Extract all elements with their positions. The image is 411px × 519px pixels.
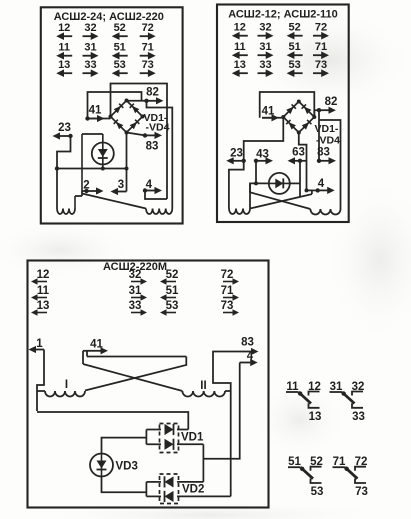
terminal 23 label box2 <box>230 148 243 160</box>
terminal 71 arrow box3 <box>221 285 239 301</box>
terminal 13 arrow <box>56 59 72 77</box>
wire bridge loop rect <box>111 84 168 200</box>
wire 4 to bridge <box>305 188 318 192</box>
wire coil I to VD1 bus <box>37 412 188 430</box>
terminal 4 arrow <box>143 187 162 194</box>
svg-text:12: 12 <box>37 269 50 281</box>
terminal 51 arrow <box>112 42 128 60</box>
svg-text:63: 63 <box>292 147 305 159</box>
svg-text:52: 52 <box>288 22 300 34</box>
terminal 32 arrow <box>83 22 99 40</box>
svg-text:53: 53 <box>311 486 324 498</box>
wire coil II right stub <box>225 390 231 392</box>
terminal 32 arrow <box>258 22 274 40</box>
terminal 83 arrow box3 <box>241 348 259 355</box>
svg-text:-VD4: -VD4 <box>146 122 170 134</box>
terminal 1 arrow <box>29 346 45 353</box>
coil II winding <box>182 391 225 397</box>
wire 43 down <box>254 161 258 186</box>
wire bottom vertex path box2 <box>299 133 307 191</box>
terminal 33 arrow <box>258 59 274 77</box>
svg-text:13: 13 <box>37 300 50 312</box>
diode pair VD1 box <box>160 424 179 453</box>
wire 82-83 vertical <box>318 110 320 161</box>
svg-text:51: 51 <box>114 42 126 54</box>
svg-text:83: 83 <box>317 147 330 159</box>
diode VD1b <box>165 439 174 450</box>
terminal 52 arrow <box>112 22 128 40</box>
label -VD4 <box>146 122 170 134</box>
svg-text:33: 33 <box>84 59 96 71</box>
terminal 72 arrow <box>313 22 329 40</box>
svg-text:51: 51 <box>288 41 300 53</box>
svg-text:32: 32 <box>129 269 142 281</box>
wire 41 to left vertex <box>262 117 283 119</box>
wire crossbar <box>87 356 186 358</box>
terminal 41 label box2 <box>262 106 275 118</box>
terminal 41 label <box>89 105 102 117</box>
svg-text:12: 12 <box>234 22 246 34</box>
svg-text:1: 1 <box>36 338 43 350</box>
terminal 2 arrow <box>84 187 103 194</box>
svg-text:11: 11 <box>234 41 246 53</box>
terminal 41 label box3 <box>90 339 103 351</box>
terminal 33 arrow <box>83 59 99 77</box>
terminal 53 arrow <box>112 59 128 77</box>
title АСШ2-24; АСШ2-220 <box>54 11 164 23</box>
wire common horizontal <box>57 168 127 170</box>
svg-text:83: 83 <box>146 141 159 153</box>
diode VD2a <box>165 476 174 487</box>
contact group 31-32-33 <box>330 381 365 423</box>
terminal 41 arrow <box>85 115 104 122</box>
wire 83 run <box>213 352 241 497</box>
wire bottom vertex to 83 <box>127 133 146 136</box>
terminal 52 arrow box3 <box>160 269 178 285</box>
svg-text:23: 23 <box>58 122 71 134</box>
indicator lamp VD5 circle <box>92 143 114 165</box>
wire VD2 right stubs <box>177 444 231 496</box>
contact group 51-52-53 <box>288 456 323 498</box>
wire diagonal A <box>83 364 182 391</box>
svg-text:I: I <box>65 379 68 391</box>
svg-text:71: 71 <box>142 42 154 54</box>
label VD1- <box>144 112 168 124</box>
terminal 71 arrow <box>140 42 156 60</box>
terminal 33 arrow box3 <box>129 300 147 316</box>
svg-text:53: 53 <box>166 300 179 312</box>
terminal 43 arrow box2 <box>254 157 273 164</box>
terminal 1 label <box>36 338 43 350</box>
terminal 23 label <box>58 122 71 134</box>
svg-text:31: 31 <box>84 42 96 54</box>
coil left winding box2 <box>229 209 250 215</box>
terminal 11 arrow <box>232 41 248 59</box>
svg-text:3: 3 <box>118 179 124 191</box>
svg-text:33: 33 <box>259 59 271 71</box>
wire 2 to coil <box>82 190 87 192</box>
relay block АСШ2-24/АСШ2-220 border <box>41 7 183 223</box>
wire 82 to right coil box2 <box>319 120 341 209</box>
wire top vertex to 82 <box>127 100 147 102</box>
svg-text:53: 53 <box>288 59 300 71</box>
svg-text:13: 13 <box>234 59 246 71</box>
diode VD1a <box>165 424 174 435</box>
terminal 41 arrow box2 <box>262 114 279 121</box>
svg-text:31: 31 <box>259 41 271 53</box>
coil I winding <box>45 391 85 397</box>
terminal 11 arrow <box>56 42 72 60</box>
svg-text:12: 12 <box>58 22 70 34</box>
svg-text:41: 41 <box>89 105 102 117</box>
relay block АСШ2-220М border <box>28 261 269 508</box>
terminal 53 arrow <box>287 59 303 77</box>
wire coil I left stub <box>37 390 45 392</box>
terminal 83 label <box>146 141 159 153</box>
terminal 31 arrow box3 <box>129 285 147 301</box>
svg-text:VD3: VD3 <box>116 461 138 473</box>
terminal 4 label <box>146 179 153 191</box>
terminal 83 label box3 <box>241 337 254 349</box>
terminal 51 arrow box3 <box>160 285 179 301</box>
wire circle-loop vertical <box>81 134 83 196</box>
svg-text:83: 83 <box>241 337 254 349</box>
svg-text:71: 71 <box>221 285 234 297</box>
wire VD1 right stubs <box>177 430 203 445</box>
terminal 4 label box2 <box>318 178 325 190</box>
svg-text:32: 32 <box>259 22 271 34</box>
svg-text:82: 82 <box>146 87 159 99</box>
svg-text:71: 71 <box>315 41 327 53</box>
svg-text:31: 31 <box>129 285 142 297</box>
wire diagonal d2 box2 <box>250 183 310 209</box>
svg-text:VD1: VD1 <box>181 432 204 444</box>
terminal 43 label box2 <box>256 149 269 161</box>
svg-text:4: 4 <box>318 178 325 190</box>
wire diagonal d1 box2 <box>250 190 312 208</box>
wire VD3 top lead <box>102 438 147 454</box>
indicator diode circle box2 <box>269 173 290 194</box>
wire circle-loop top <box>82 133 103 135</box>
coil left winding <box>57 196 82 214</box>
svg-text:33: 33 <box>129 300 142 312</box>
wire VD2 left bus <box>146 482 161 497</box>
svg-text:73: 73 <box>315 59 327 71</box>
terminal 12 arrow <box>56 22 72 40</box>
svg-text:АСШ2-12; АСШ2-110: АСШ2-12; АСШ2-110 <box>228 9 338 21</box>
wire bottom vertex down <box>125 133 129 171</box>
wire 82 to right coil <box>147 101 173 209</box>
terminal 13 arrow box3 <box>31 300 49 316</box>
diode VD2b <box>165 491 174 502</box>
terminal 82 arrow box2 <box>317 107 336 114</box>
terminal 13 arrow <box>232 59 248 77</box>
svg-text:23: 23 <box>230 148 243 160</box>
terminal 83 arrow <box>143 132 162 139</box>
wire 23 up to left vertex <box>244 117 284 161</box>
svg-text:72: 72 <box>315 22 327 34</box>
terminal 72 arrow <box>140 22 156 40</box>
svg-text:13: 13 <box>58 59 70 71</box>
svg-text:11: 11 <box>58 42 70 54</box>
wire circle left lead <box>250 183 269 208</box>
diode bridge VD1-VD4 <box>109 99 145 135</box>
svg-text:32: 32 <box>84 22 96 34</box>
svg-text:72: 72 <box>221 269 234 281</box>
wire circle right lead <box>290 182 300 184</box>
terminal 23 arrow <box>53 132 73 139</box>
terminal 73 arrow <box>140 59 156 77</box>
svg-text:33: 33 <box>352 411 365 423</box>
terminal 3 arrow <box>111 188 127 195</box>
svg-text:13: 13 <box>309 411 322 423</box>
title АСШ2-220М <box>103 261 167 273</box>
label coil I <box>65 379 68 391</box>
wire 4 loop <box>145 191 167 200</box>
terminal 82 arrow <box>144 97 163 104</box>
label VD2 <box>182 484 204 496</box>
terminal 52 arrow <box>287 22 303 40</box>
svg-text:82: 82 <box>325 96 338 108</box>
terminal 51 arrow <box>287 41 303 59</box>
wire VD3 bottom lead <box>102 477 147 493</box>
coil right winding box2 <box>310 209 340 215</box>
terminal 82 label <box>146 87 159 99</box>
svg-text:73: 73 <box>355 486 368 498</box>
wire 1 down to coil I <box>37 350 44 412</box>
terminal 12 arrow box3 <box>31 269 49 285</box>
svg-text:11: 11 <box>37 285 50 297</box>
wire 23 to junction <box>57 136 71 169</box>
label -VD4 box2 <box>316 135 340 147</box>
svg-text:73: 73 <box>142 59 154 71</box>
terminal 41 arrow box3 <box>87 347 108 354</box>
wire 23 down to coil <box>229 161 244 209</box>
label VD3 <box>116 461 138 473</box>
terminal 2 label <box>83 180 89 192</box>
terminal 83 label box2 <box>317 147 330 159</box>
svg-text:52: 52 <box>114 22 126 34</box>
indicator diode VD3 <box>90 454 113 477</box>
label coil II <box>200 380 206 392</box>
terminal 73 arrow <box>313 59 329 77</box>
wire diagonal to right coil <box>82 194 146 209</box>
coil right winding <box>146 209 172 215</box>
terminal 71 arrow <box>313 41 329 59</box>
terminal 83 arrow box2 <box>317 157 336 164</box>
terminal 3 label <box>118 179 124 191</box>
contact group 11-12-13 <box>286 381 321 423</box>
wire 4 run <box>203 363 239 459</box>
wire 41 to bridge left vertex <box>88 118 111 120</box>
terminal 32 arrow box3 <box>129 269 147 285</box>
terminal 4 arrow box2 <box>316 187 335 194</box>
svg-text:II: II <box>200 380 206 392</box>
diode bridge VD1-VD4 box2 <box>281 100 316 135</box>
relay block АСШ2-12/АСШ2-110 border <box>217 5 349 223</box>
diode pair VD2 box <box>160 474 179 504</box>
wire bridge loop rect box2 <box>260 92 315 118</box>
wire to terminal 3 <box>126 169 128 192</box>
svg-text:73: 73 <box>221 300 234 312</box>
svg-text:53: 53 <box>114 59 126 71</box>
terminal 12 arrow <box>232 22 248 40</box>
wire diagonal B <box>85 357 186 391</box>
terminal 82 label box2 <box>325 96 338 108</box>
svg-text:51: 51 <box>166 285 179 297</box>
terminal 31 arrow <box>83 42 99 60</box>
label VD1 <box>181 432 204 444</box>
terminal 11 arrow box3 <box>31 285 50 301</box>
terminal 72 arrow box3 <box>221 269 239 285</box>
wire VD1 left bus <box>146 430 161 445</box>
svg-text:VD2: VD2 <box>182 484 204 496</box>
wire lamp lead <box>101 134 105 171</box>
terminal 53 arrow box3 <box>160 300 178 316</box>
wire left-coil lead <box>56 169 58 209</box>
wire 41 drop <box>83 351 87 364</box>
terminal 73 arrow box3 <box>221 300 239 316</box>
terminal 4 arrow box3 <box>240 359 258 366</box>
wire right vertex to 82 <box>314 110 319 117</box>
contact group 71-72-73 <box>333 456 368 498</box>
label VD1- box2 <box>315 123 339 135</box>
terminal 31 arrow <box>258 41 274 59</box>
terminal 63 arrow box2 <box>288 157 307 164</box>
svg-text:72: 72 <box>142 22 154 34</box>
terminal 23 arrow box2 <box>226 157 246 164</box>
wire 63 down <box>299 161 301 197</box>
terminal 4 label box3 <box>247 351 254 363</box>
wire 41 upper loop <box>88 92 142 119</box>
terminal 63 label box2 <box>292 147 305 159</box>
title АСШ2-12; АСШ2-110 <box>228 9 338 21</box>
node junction left <box>55 166 59 170</box>
svg-text:52: 52 <box>166 269 179 281</box>
